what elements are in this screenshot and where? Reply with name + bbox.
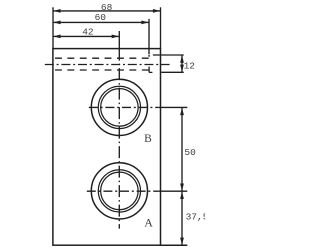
- svg-text:50: 50: [184, 147, 196, 158]
- svg-text:A: A: [144, 216, 153, 230]
- svg-text:42: 42: [82, 26, 94, 37]
- svg-text:B: B: [144, 133, 152, 145]
- svg-text:12: 12: [184, 61, 196, 72]
- svg-text:60: 60: [95, 12, 107, 23]
